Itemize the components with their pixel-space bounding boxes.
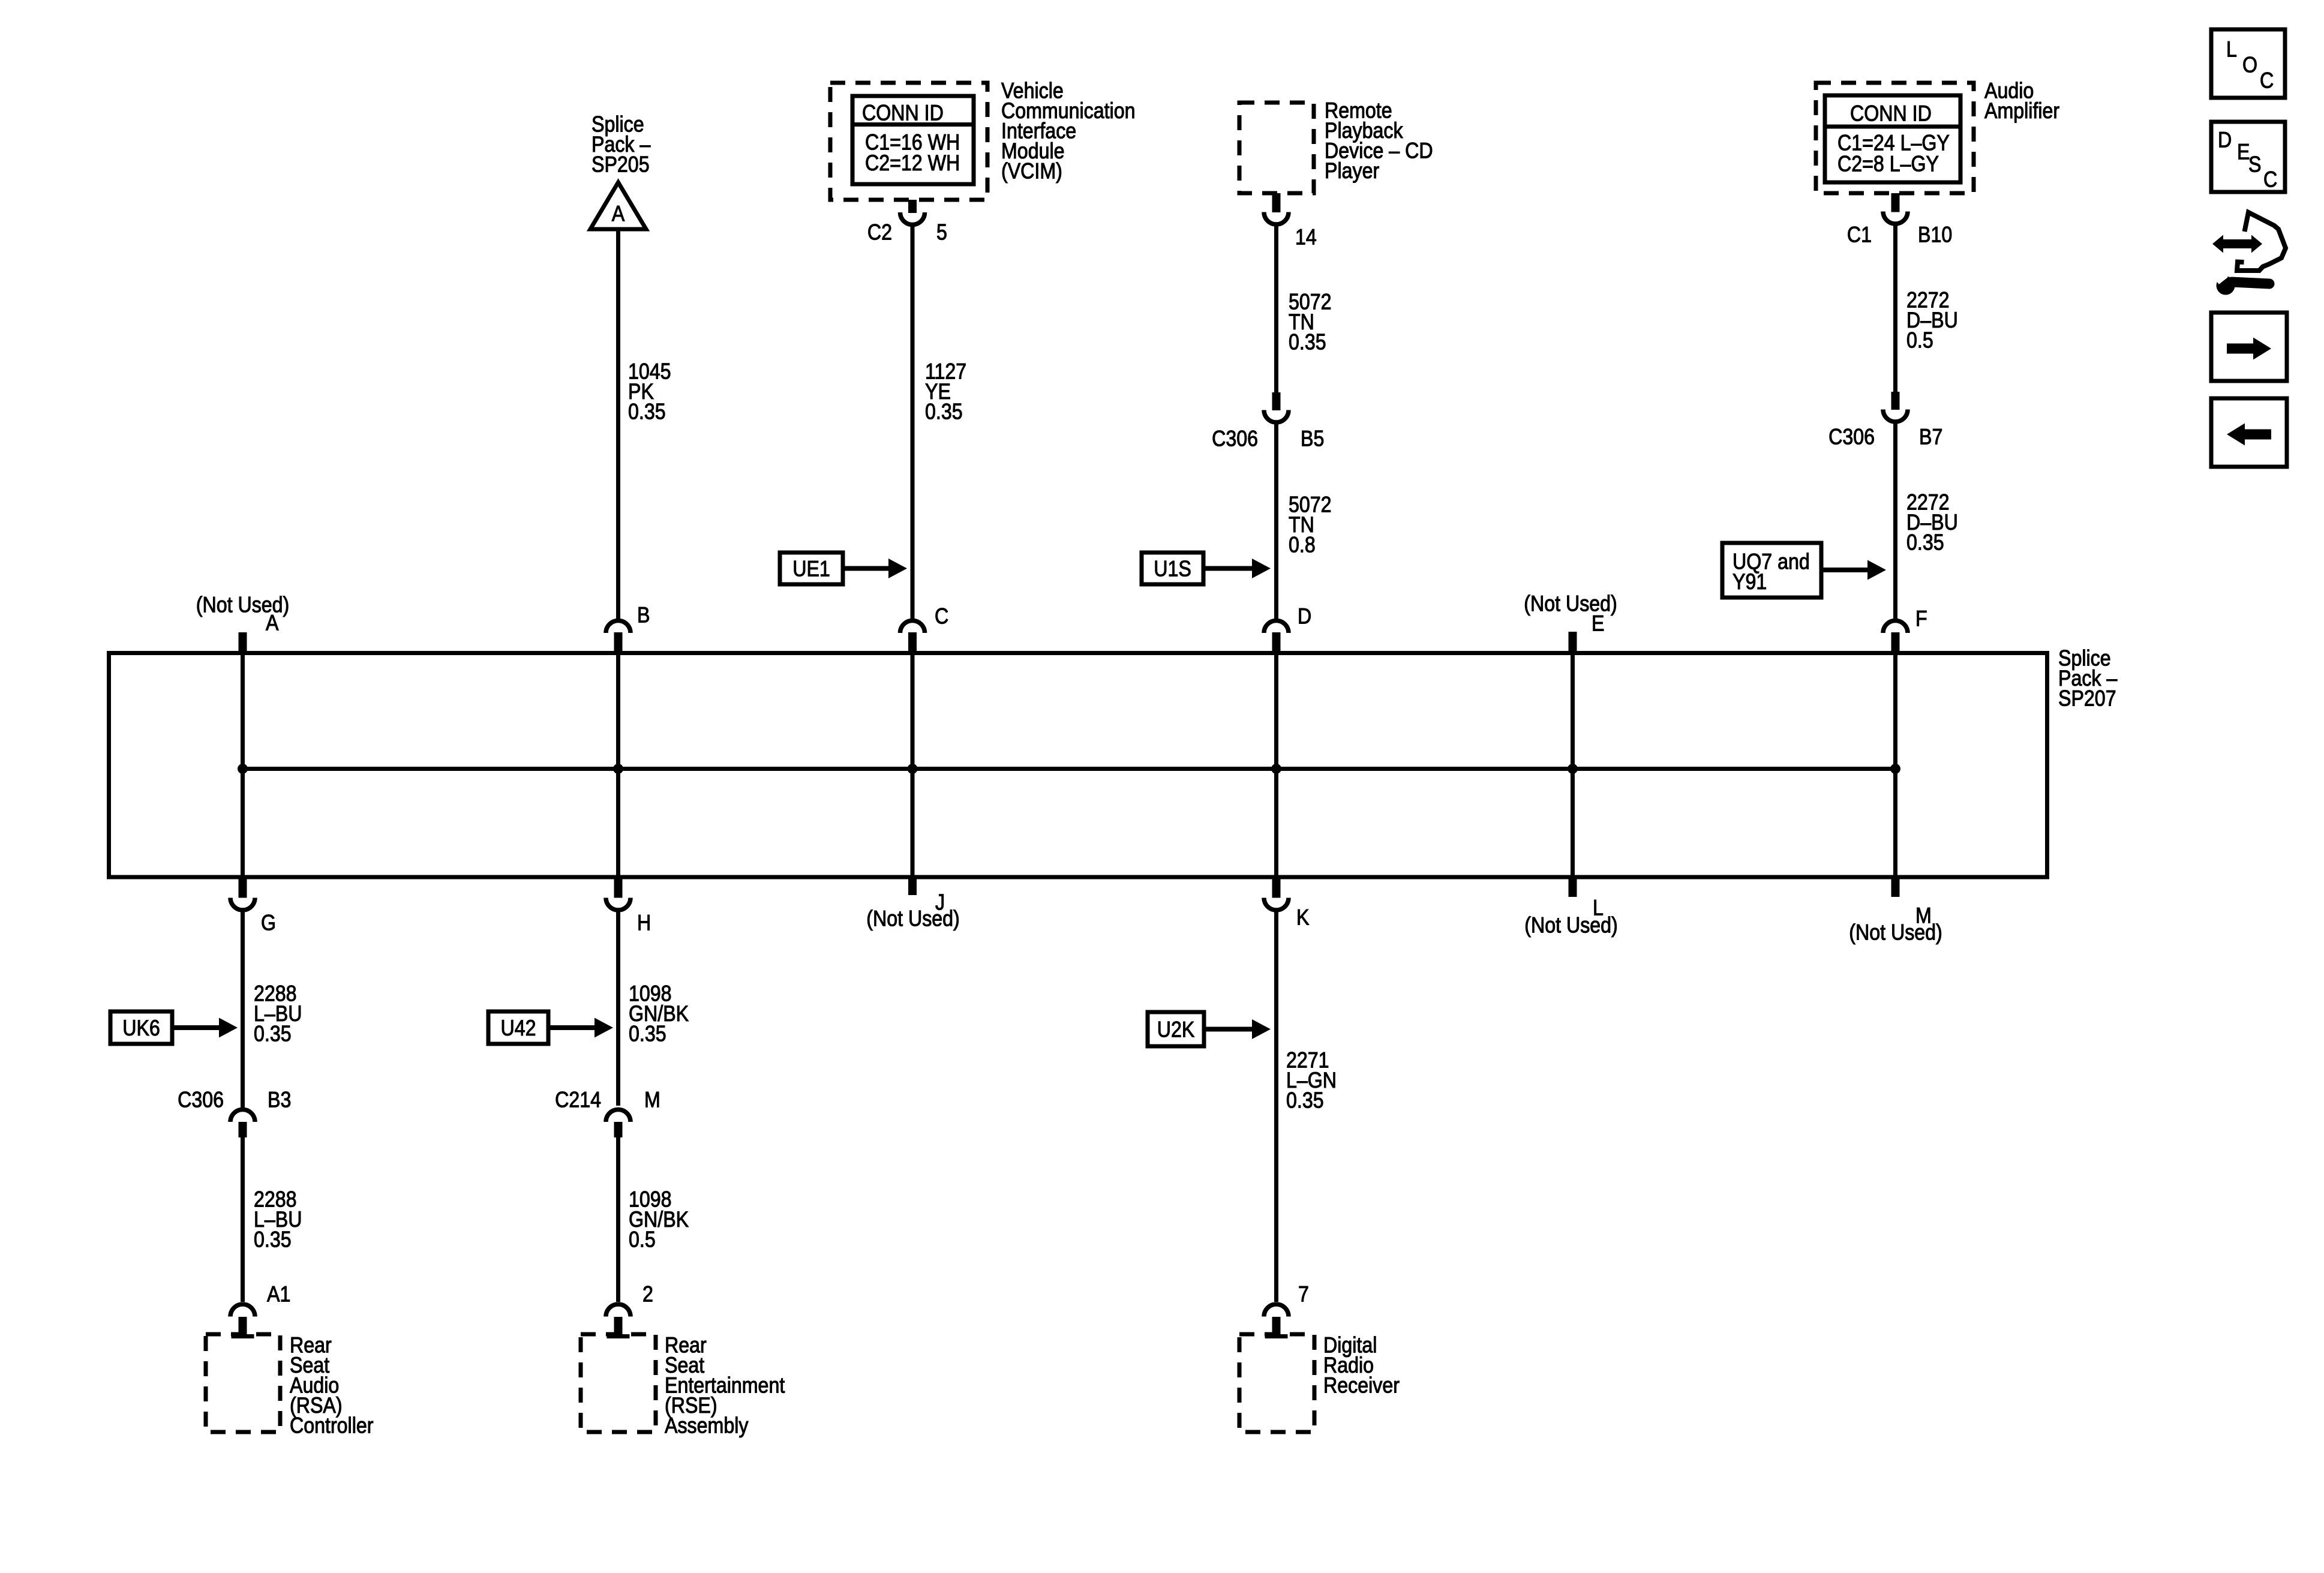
junction node A on bus (238, 764, 248, 774)
Audio Amplifier dashed component box (1816, 83, 1974, 193)
label (Not Used) below J (866, 906, 960, 931)
VCIM connector cup C2-5 (900, 212, 925, 224)
label Remote Playback Device - CD Player (1325, 98, 1433, 183)
RSA pin stub A1 (232, 1317, 254, 1337)
inline connector C214 M pin (614, 1122, 623, 1137)
amplifier connector cup C1-B10 (1883, 212, 1908, 224)
option flag U2K with arrow (1148, 1012, 1271, 1046)
label C306 (B3) (178, 1088, 224, 1112)
svg-text:0.35: 0.35 (925, 400, 963, 424)
svg-text:Y91: Y91 (1733, 570, 1767, 595)
svg-text:L: L (2226, 37, 2237, 62)
splice pack SP207 outline box (109, 653, 2047, 878)
LOC icon box (2211, 29, 2285, 98)
label M pin of C214 (644, 1088, 660, 1112)
label (Not Used) above A (196, 593, 290, 617)
wire label 1045 PK 0.35 (628, 359, 671, 424)
svg-text:C2: C2 (867, 220, 892, 245)
label E terminal (1592, 611, 1604, 636)
internal wire column F-M (1893, 653, 1897, 878)
junction node D on bus (1271, 764, 1281, 774)
inline connector C306 B5 cup (1264, 410, 1289, 422)
back arrow icon box (2211, 398, 2287, 467)
terminal E pin stub (not used) (1569, 632, 1577, 652)
svg-text:F: F (1915, 607, 1927, 631)
svg-text:B10: B10 (1918, 223, 1952, 247)
svg-text:0.35: 0.35 (629, 1022, 666, 1046)
inline connector C306 B3 pin (239, 1122, 247, 1137)
svg-text:UE1: UE1 (792, 557, 830, 581)
internal wire column A-G (241, 653, 245, 878)
label B3 (268, 1088, 291, 1112)
junction node E on bus (1568, 764, 1578, 774)
svg-text:S: S (2248, 152, 2261, 177)
svg-text:0.35: 0.35 (1906, 530, 1944, 555)
label C terminal (935, 604, 948, 629)
option flag U1S with arrow (1142, 553, 1271, 584)
wire label 2271 L-GN 0.35 (1286, 1048, 1337, 1113)
label pin 14 (1295, 225, 1317, 250)
svg-text:SP207: SP207 (2058, 686, 2116, 711)
svg-text:0.35: 0.35 (254, 1022, 292, 1046)
inline connector C306 B7 cup (1883, 410, 1908, 422)
terminal A pin stub (not used) (239, 632, 247, 652)
splice symbol triangle A (SP205) (590, 182, 646, 229)
svg-text:D: D (1298, 604, 1311, 629)
label (Not Used) below L (1524, 913, 1618, 938)
digital radio connector cup pin 7 (1264, 1304, 1289, 1317)
svg-text:C1: C1 (1847, 223, 1872, 247)
terminal K pin stub (1272, 879, 1281, 898)
svg-text:K: K (1296, 905, 1309, 930)
svg-text:C214: C214 (555, 1088, 601, 1112)
terminal D connector cup (1264, 621, 1289, 634)
svg-text:(Not Used): (Not Used) (866, 906, 960, 931)
svg-text:(Not Used): (Not Used) (1524, 913, 1618, 938)
wire label 2288 L-BU 0.35 (lower) (254, 1187, 302, 1252)
terminal F connector cup (1883, 621, 1908, 634)
label M terminal (1915, 903, 1932, 928)
wire segment C306 to RSA controller (241, 1106, 245, 1302)
VCIM CONN ID box (852, 96, 974, 184)
label C306 (B7) (1828, 425, 1875, 449)
digital radio pin stub 7 (1265, 1317, 1288, 1337)
label pin B10 (1918, 223, 1952, 247)
forward arrow icon box (2211, 313, 2287, 381)
wire label 1127 YE 0.35 (925, 359, 966, 424)
svg-text:CONN ID: CONN ID (862, 101, 944, 125)
svg-text:0.8: 0.8 (1289, 533, 1316, 557)
wire label 5072 TN 0.35 (1289, 290, 1332, 355)
terminal C connector cup (900, 621, 925, 634)
VCIM dashed component box (830, 83, 987, 200)
label C306 (B5) (1212, 427, 1258, 451)
label B5 (1301, 427, 1324, 451)
svg-text:Amplifier: Amplifier (1984, 99, 2059, 124)
label D terminal (1298, 604, 1311, 629)
svg-text:C: C (935, 604, 948, 629)
diagnostic wrench icon (2212, 212, 2286, 295)
terminal J pin stub (not used) (908, 879, 917, 896)
terminal G connector cup (230, 898, 255, 911)
wire segment C306 to F (1893, 424, 1897, 619)
svg-text:A: A (266, 611, 279, 635)
svg-text:H: H (637, 911, 651, 935)
svg-text:E: E (1592, 611, 1604, 636)
wire segment G to C306 (241, 912, 245, 1106)
svg-text:U1S: U1S (1154, 557, 1191, 581)
wire label 2272 D-BU 0.5 (1906, 288, 1958, 353)
svg-text:Assembly: Assembly (665, 1413, 749, 1438)
label Vehicle Communication Interface Module (VCIM) (1001, 79, 1136, 184)
svg-text:7: 7 (1298, 1282, 1309, 1307)
amplifier pin stub C1-B10 (1891, 193, 1900, 212)
svg-text:A: A (612, 202, 625, 226)
wire label 5072 TN 0.8 (1289, 493, 1332, 557)
internal wire column D-K (1274, 653, 1278, 878)
internal wire column C-J (911, 653, 915, 878)
label pin 2 (642, 1282, 653, 1307)
inline connector C306 B5 pin (1272, 392, 1281, 410)
label pin 5 (936, 220, 947, 245)
svg-text:Player: Player (1325, 159, 1379, 184)
Rear Seat Audio controller dashed box (206, 1334, 280, 1432)
wire label 2288 L-BU 0.35 (upper) (254, 981, 302, 1046)
label (Not Used) below M (1849, 920, 1942, 945)
label (Not Used) above E (1524, 592, 1617, 616)
svg-text:A1: A1 (267, 1282, 290, 1307)
RSE pin stub 2 (607, 1317, 630, 1337)
svg-text:0.35: 0.35 (628, 400, 666, 424)
svg-text:0.35: 0.35 (1289, 330, 1326, 355)
Remote Playback Device dashed box (1239, 103, 1314, 193)
svg-text:UK6: UK6 (122, 1016, 160, 1041)
wire segment SP205 to B (616, 229, 620, 619)
option flag U42 with arrow (488, 1011, 613, 1044)
junction node F on bus (1890, 764, 1900, 774)
svg-text:B3: B3 (268, 1088, 291, 1112)
inline connector C306 B7 pin (1891, 392, 1900, 410)
inline connector C214 M cup (606, 1109, 630, 1122)
wire label 1098 GN/BK 0.5 (629, 1187, 689, 1252)
Audio Amplifier CONN ID box (1825, 95, 1960, 182)
svg-text:CONN ID: CONN ID (1850, 101, 1932, 126)
label pin 7 (1298, 1282, 1309, 1307)
option flag UQ7 and Y91 with arrow (1722, 543, 1886, 598)
Rear Seat Entertainment dashed box (581, 1334, 656, 1432)
svg-text:O: O (2242, 53, 2257, 77)
label C214 (555, 1088, 601, 1112)
terminal H connector cup (606, 898, 630, 911)
svg-text:B: B (637, 603, 650, 628)
label Splice Pack - SP205 (591, 112, 651, 177)
label Rear Seat Audio (RSA) Controller (290, 1333, 373, 1438)
wire segment amplifier to C306 (1893, 226, 1897, 392)
svg-text:0.5: 0.5 (1906, 328, 1933, 353)
svg-text:(VCIM): (VCIM) (1001, 159, 1062, 184)
svg-text:B7: B7 (1919, 425, 1942, 449)
inline connector C306 B3 cup (230, 1109, 255, 1122)
wire segment VCIM to C (911, 227, 915, 619)
svg-text:U42: U42 (500, 1016, 536, 1041)
RSE connector cup pin 2 (606, 1304, 630, 1317)
terminal F pin stub (1891, 632, 1900, 652)
CD player pin stub 14 (1272, 193, 1281, 212)
terminal M pin stub (not used) (1891, 879, 1900, 897)
label Audio Amplifier (1984, 79, 2059, 123)
terminal C pin stub (908, 632, 917, 652)
terminal D pin stub (1272, 632, 1281, 652)
svg-text:SP205: SP205 (591, 152, 650, 177)
svg-text:D: D (2218, 128, 2232, 152)
label F terminal (1915, 607, 1927, 631)
svg-text:0.5: 0.5 (629, 1227, 656, 1252)
junction node B on bus (613, 764, 623, 774)
wire segment H to C214 (616, 912, 620, 1106)
svg-text:C: C (2263, 167, 2277, 192)
label pin A1 (267, 1282, 290, 1307)
wire label 2272 D-BU 0.35 (1906, 490, 1958, 555)
wire label 1098 GN/BK 0.35 (629, 981, 689, 1046)
option flag UE1 with arrow (780, 553, 907, 584)
svg-text:C306: C306 (1828, 425, 1875, 449)
junction node C on bus (908, 764, 918, 774)
internal wire column B-H (616, 653, 620, 878)
label H terminal (637, 911, 651, 935)
wire segment CD player to C306 (1274, 227, 1278, 393)
terminal H pin stub (614, 879, 623, 898)
terminal B connector cup (606, 621, 630, 634)
svg-text:Receiver: Receiver (1323, 1373, 1400, 1398)
label C1 connector id (1847, 223, 1872, 247)
wire segment C306 to D (1274, 425, 1278, 619)
label Rear Seat Entertainment (RSE) Assembly (665, 1333, 785, 1438)
svg-text:C306: C306 (178, 1088, 224, 1112)
terminal L pin stub (not used) (1569, 879, 1577, 897)
label Splice Pack - SP207 (2058, 646, 2118, 711)
svg-text:C306: C306 (1212, 427, 1258, 451)
internal wire column E-L (1571, 653, 1575, 878)
svg-text:0.35: 0.35 (1286, 1088, 1324, 1113)
svg-text:0.35: 0.35 (254, 1227, 292, 1252)
svg-text:C2=12 WH: C2=12 WH (865, 151, 960, 176)
CD player connector cup 14 (1264, 212, 1289, 225)
svg-text:U2K: U2K (1157, 1017, 1195, 1042)
terminal B pin stub (614, 632, 623, 652)
label A terminal (266, 611, 279, 635)
svg-text:C2=8 L–GY: C2=8 L–GY (1837, 152, 1939, 176)
svg-text:2: 2 (642, 1282, 653, 1307)
terminal K connector cup (1264, 898, 1289, 911)
svg-text:(Not Used): (Not Used) (1849, 920, 1942, 945)
bus wire inside SP207 (243, 767, 1896, 771)
svg-text:B5: B5 (1301, 427, 1324, 451)
svg-text:14: 14 (1295, 225, 1317, 250)
VCIM pin stub C2-5 (908, 200, 917, 213)
svg-text:Controller: Controller (290, 1413, 373, 1438)
svg-text:M: M (644, 1088, 660, 1112)
DESC icon box (2211, 122, 2285, 192)
wire segment K to digital radio receiver (1274, 912, 1278, 1302)
label B terminal (637, 603, 650, 628)
label B7 (1919, 425, 1942, 449)
Digital Radio Receiver dashed box (1239, 1334, 1314, 1432)
option flag UK6 with arrow (110, 1011, 238, 1044)
svg-text:G: G (261, 911, 276, 935)
label G terminal (261, 911, 276, 935)
svg-text:5: 5 (936, 220, 947, 245)
label C2 connector id (867, 220, 892, 245)
label L terminal (1593, 896, 1604, 920)
svg-text:C: C (2260, 68, 2274, 93)
terminal G pin stub (239, 879, 247, 898)
label J terminal (935, 890, 945, 915)
label K terminal (1296, 905, 1309, 930)
RSA connector cup A1 (230, 1304, 255, 1317)
wire segment C214 to RSE assembly (616, 1137, 620, 1302)
label Digital Radio Receiver (1323, 1333, 1400, 1398)
